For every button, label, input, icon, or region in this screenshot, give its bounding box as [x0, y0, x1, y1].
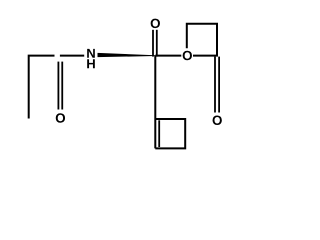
double bond C4=O2 line a [152, 30, 154, 57]
ring A: four-membered oxetane ring outline [187, 24, 217, 56]
atom label O3 (ring oxygen) [183, 51, 192, 60]
wedge bond N-C4 (solid stereo wedge) [98, 53, 156, 57]
bond C3-N [60, 55, 84, 57]
double bond C4=O2 line b [156, 30, 158, 57]
double bond C3=O1 line a [57, 62, 59, 110]
bond C4 down fused with ring B left edge [154, 56, 156, 149]
bond chain CH3-CH2-C(=O) : left vertical with corner to horizontal [29, 56, 55, 119]
double bond C5=O4 line a [214, 57, 216, 113]
double bond C3=O1 line b [61, 62, 63, 110]
atom label O4 (ketone oxygen) [213, 116, 222, 125]
atom label O2 (ester carbonyl oxygen) [151, 19, 160, 28]
atom label N (amide nitrogen) [87, 49, 95, 58]
atom label H on nitrogen [87, 59, 95, 68]
ring B: cyclobutene square top/right/bottom edges [155, 119, 185, 148]
atom label O1 (amide carbonyl oxygen) [56, 113, 65, 122]
inner line of cyclobutene double bond [158, 120, 160, 147]
bond C4-O3 [155, 55, 181, 57]
double bond C5=O4 line b [218, 57, 220, 113]
